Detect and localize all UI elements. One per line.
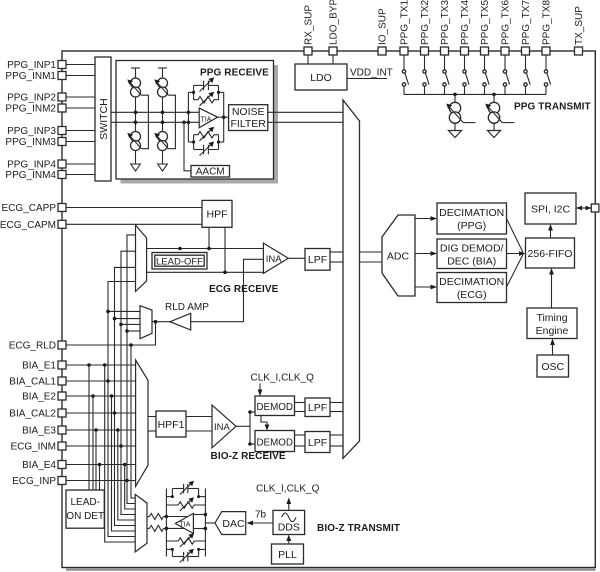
input mux SWITCH <box>95 57 111 181</box>
svg-text:BIO-Z RECEIVE: BIO-Z RECEIVE <box>211 451 286 462</box>
pin BIA_E1 <box>22 361 136 372</box>
oscillator OSC <box>537 355 569 377</box>
feedback upper connectors <box>188 85 223 99</box>
junction leadoff tap <box>178 247 182 251</box>
pin PPG_INM4 <box>5 170 95 181</box>
pin PPG_TX8 <box>542 0 553 55</box>
wire Timing Engine to FIFO <box>549 268 554 308</box>
junction TIA-TX in lower <box>165 527 169 531</box>
svg-text:PPG_INM3: PPG_INM3 <box>5 137 56 148</box>
PPG RECEIVE block frame <box>116 61 274 180</box>
svg-text:PPG TRANSMIT: PPG TRANSMIT <box>514 102 591 113</box>
svg-text:BIA_CAL1: BIA_CAL1 <box>9 377 56 388</box>
current source IRX2 (bottom) <box>154 132 168 164</box>
switch SW_TX3 <box>443 55 449 94</box>
wire clock to DEMOD <box>258 384 263 397</box>
wire TIA-TX right pair <box>193 513 207 531</box>
svg-text:(ECG): (ECG) <box>457 289 487 301</box>
svg-text:PPG_INM1: PPG_INM1 <box>5 71 56 82</box>
svg-text:NOISE: NOISE <box>232 106 265 118</box>
wire riser net1 (BIA_E1 to TX mux) <box>103 363 136 542</box>
wire DDS to DAC (7b) <box>247 510 274 526</box>
wire LPF to bus upper <box>330 251 343 253</box>
op-amp TIA (PPG) <box>199 108 217 128</box>
svg-text:DEMOD: DEMOD <box>256 402 292 413</box>
ground GND_IRX2 <box>158 164 168 171</box>
svg-text:TIA: TIA <box>201 117 212 124</box>
feedback lower connectors <box>188 135 223 150</box>
wire TIA-TX fb right post <box>204 489 206 557</box>
wire RLD to INA input <box>244 259 264 321</box>
switch SW_TX2 <box>423 55 429 94</box>
resistor RF2 (variable) <box>194 127 219 141</box>
pin ECG_INP <box>12 476 136 487</box>
wire SPI bus to pin <box>576 206 592 210</box>
svg-text:PPG_INP1: PPG_INP1 <box>7 60 56 71</box>
wire DIGDEMOD to FIFO <box>507 253 524 255</box>
dds DDS <box>273 510 305 534</box>
svg-text:HPF: HPF <box>207 209 228 221</box>
wire HPF drop M <box>224 227 226 272</box>
current source IRX1 (bottom) <box>127 132 141 164</box>
svg-text:DDS: DDS <box>278 522 300 534</box>
svg-text:LDO: LDO <box>310 72 332 84</box>
ground GND_ITX1 <box>449 131 462 138</box>
filter HPF <box>202 200 232 227</box>
wire TIA fb right post <box>223 92 225 142</box>
mux ECG input <box>136 225 147 291</box>
svg-text:PPG_INP3: PPG_INP3 <box>7 126 56 137</box>
interface SPI, I2C <box>525 193 576 224</box>
svg-text:BIA_CAL2: BIA_CAL2 <box>9 409 56 420</box>
fifo 256-FIFO <box>526 238 575 268</box>
pin PPG_TX7 <box>521 0 532 55</box>
svg-text:CLK_I,CLK_Q: CLK_I,CLK_Q <box>256 484 320 495</box>
svg-text:HPF1: HPF1 <box>158 419 185 431</box>
svg-text:LPF: LPF <box>308 402 327 414</box>
pin BIA_CAL1 <box>9 377 135 388</box>
pin PPG_TX2 <box>420 0 431 55</box>
svg-text:DAC: DAC <box>222 518 245 530</box>
current source IRX2 (top) <box>154 78 175 149</box>
svg-text:PLL: PLL <box>278 549 297 561</box>
wire riser net3 (BIA_E2 to TX mux) <box>110 394 136 531</box>
wire HPF drop P <box>208 227 210 248</box>
filter NOISE FILTER <box>229 105 268 131</box>
pin BIA_E4 <box>22 460 136 471</box>
pin PPG_INP4 <box>7 160 95 171</box>
svg-text:INA: INA <box>214 422 231 433</box>
junction col2 upper <box>161 111 165 115</box>
pin PPG_INP3 <box>7 126 95 137</box>
svg-text:CLK_I,CLK_Q: CLK_I,CLK_Q <box>251 373 315 384</box>
wire RLD mux out <box>152 321 170 323</box>
wire AACM tap <box>182 121 191 171</box>
filter LPF (ECG) <box>305 249 330 271</box>
svg-text:RLD AMP: RLD AMP <box>165 302 209 313</box>
switch SW_TX7 <box>524 55 530 94</box>
svg-text:Engine: Engine <box>536 325 569 337</box>
pin PPG_TX6 <box>501 0 512 55</box>
switch SW_TX6 <box>503 55 509 94</box>
wire TIA-TX fb left post <box>165 489 167 557</box>
current source ITX2 <box>485 94 514 130</box>
pin PPG_TX5 <box>480 0 491 55</box>
chip boundary shadow <box>66 568 596 570</box>
ground GND_IRX1 <box>131 164 141 171</box>
PPG RECEIVE block shadow <box>121 65 279 184</box>
switch SW_TX1 <box>402 55 408 94</box>
wire column1 <box>135 97 137 132</box>
svg-text:7b: 7b <box>255 510 267 521</box>
junction HPF-P <box>207 247 211 251</box>
svg-text:BIA_E2: BIA_E2 <box>22 392 56 403</box>
wire INA out to demods <box>236 410 255 446</box>
wire LPF1 to bus pair <box>330 403 343 412</box>
block LEAD-ON DET <box>66 490 104 528</box>
svg-text:BIA_E4: BIA_E4 <box>22 460 56 471</box>
svg-text:PPG_TX8: PPG_TX8 <box>542 0 553 45</box>
wire ECG chain lower <box>147 271 264 273</box>
svg-text:DEC (BIA): DEC (BIA) <box>447 256 496 268</box>
regulator LDO <box>295 64 347 90</box>
svg-text:LEAD-: LEAD- <box>70 497 99 508</box>
wire bus to ADC upper <box>360 251 383 253</box>
svg-text:ECG_CAPM: ECG_CAPM <box>0 220 56 231</box>
wire riser net8 (ECG_INP, ECG mux, RLD mux, TX mux) <box>125 235 135 504</box>
svg-text:LEAD-OFF: LEAD-OFF <box>156 256 203 267</box>
pin TX_SUP <box>574 6 585 55</box>
svg-text:PPG_INM2: PPG_INM2 <box>5 104 56 115</box>
svg-text:Timing: Timing <box>536 312 567 324</box>
pin PPG_TX4 <box>460 0 471 55</box>
svg-text:OSC: OSC <box>541 361 564 373</box>
wire ECG chain upper <box>147 248 264 250</box>
svg-text:TX_SUP: TX_SUP <box>574 6 585 45</box>
block LEAD-OFF <box>152 253 207 270</box>
wire DDS to CLK <box>286 498 291 511</box>
wire DECIM(ECG) to FIFO <box>507 255 524 288</box>
junction TIA-TX in upper <box>165 515 169 519</box>
pin PPG_INP2 <box>7 93 95 104</box>
wire riser net5 (BIA_E3 to TX mux) <box>116 428 135 520</box>
wire TIA to DAC <box>205 522 215 524</box>
pin BIA_E3 <box>22 426 136 437</box>
wire ADC to DIG DEMOD <box>415 251 437 256</box>
arrowhead into FIFO <box>519 251 526 256</box>
mux BIO-Z transmit <box>135 494 147 552</box>
net VDD_INT <box>348 68 393 79</box>
wire DEMOD2 to LPF2 pair <box>295 435 306 446</box>
wire riser E2 to LEAD-ON DET <box>91 394 95 490</box>
wire TIA fb left post <box>187 92 189 142</box>
svg-text:PPG_INM4: PPG_INM4 <box>5 170 56 181</box>
pin PPG_TX1 <box>400 0 411 55</box>
filter LPF (BIO-Z Q) <box>305 432 330 453</box>
svg-text:IO_SUP: IO_SUP <box>378 8 389 45</box>
switch SW_TX4 <box>463 55 469 94</box>
switch SW_TX5 <box>483 55 489 94</box>
svg-text:INA: INA <box>266 254 283 265</box>
svg-text:BIA_E1: BIA_E1 <box>22 361 56 372</box>
junction rail-Isrc1 <box>453 93 457 97</box>
junction TIA fb left upper <box>187 111 191 115</box>
svg-text:PPG_TX5: PPG_TX5 <box>480 0 491 45</box>
resistor RF1 (variable) <box>194 92 219 106</box>
pin BIA_E2 <box>22 392 136 403</box>
wire riser net2 (BIA_CAL1, ECG mux, RLD mux, TX mux) <box>106 282 135 537</box>
wire TIA input lower <box>111 121 199 123</box>
svg-text:RX_SUP: RX_SUP <box>304 5 315 45</box>
demodulator DEMOD (Q) <box>255 431 295 452</box>
op-amp INA (BIO-Z) <box>212 405 236 448</box>
svg-text:ADC: ADC <box>387 251 410 263</box>
svg-text:PPG_TX6: PPG_TX6 <box>501 0 512 45</box>
supply bar column1 <box>131 68 140 78</box>
junction RLD node <box>154 320 158 324</box>
block DECIMATION (ECG) <box>437 273 507 303</box>
supply bar column2 <box>158 68 167 78</box>
wire column2 <box>162 97 164 132</box>
wire riser E4 to LEAD-ON DET <box>98 463 102 490</box>
block AACM <box>191 166 230 178</box>
junction col1 upper <box>134 111 138 115</box>
wire TX common rail <box>404 93 546 95</box>
svg-text:FILTER: FILTER <box>230 118 266 130</box>
pll PLL <box>272 544 304 564</box>
svg-text:BIA_E3: BIA_E3 <box>22 426 56 437</box>
pin PPG_INM3 <box>5 137 95 148</box>
svg-text:DEMOD: DEMOD <box>256 437 292 448</box>
pin RX_SUP <box>304 5 315 55</box>
analog bus mux (tall) <box>343 100 360 458</box>
demodulator DEMOD (I) <box>255 396 295 416</box>
pin PPG_INP1 <box>7 60 95 71</box>
capacitor C_TXF2 (variable) <box>172 549 198 563</box>
wire DEMOD1 to DEMOD2 <box>261 416 269 431</box>
filter HPF1 <box>156 411 186 437</box>
block DIG DEMOD/DEC (BIA) <box>437 239 507 269</box>
wire TIA input upper <box>111 111 199 113</box>
wire riser net7 (BIA_E4 to TX mux) <box>123 463 136 509</box>
wire LDO_BYP to LDO <box>332 55 334 64</box>
capacitor CF1 (variable) <box>194 77 219 91</box>
op-amp TIA (BIO-Z TX) <box>175 513 193 533</box>
pin BIA_CAL2 <box>9 409 135 420</box>
wire ADC to DECIMATION(PPG) <box>415 216 437 221</box>
svg-text:BIO-Z TRANSMIT: BIO-Z TRANSMIT <box>317 523 400 534</box>
svg-text:DECIMATION: DECIMATION <box>439 276 504 288</box>
wire riser E1 to LEAD-ON DET <box>87 363 91 490</box>
ground GND_ITX2 <box>488 131 501 138</box>
current source ITX1 <box>446 94 475 130</box>
wire TIA to NOISE FILTER <box>218 116 229 118</box>
svg-text:LPF: LPF <box>308 437 327 449</box>
svg-text:ECG_INM: ECG_INM <box>10 442 56 453</box>
junction col1 lower <box>134 121 138 125</box>
wire FIFO to SPI <box>548 224 553 238</box>
pin SDA/SCL (right edge) <box>591 204 599 212</box>
wire riser net9 (RLD to TX mux) <box>129 343 135 498</box>
mux BIO-Z input <box>136 360 148 486</box>
wire DECIM(PPG) to FIFO <box>507 219 524 253</box>
svg-text:PPG_TX1: PPG_TX1 <box>400 0 411 45</box>
pin ECG_CAPP <box>2 203 202 214</box>
svg-text:TIA: TIA <box>180 522 191 529</box>
svg-text:PPG RECEIVE: PPG RECEIVE <box>200 68 269 79</box>
wire NF out lower <box>268 121 343 123</box>
current source IRX1 (top) <box>127 78 148 149</box>
svg-text:(PPG): (PPG) <box>457 220 486 232</box>
wire LPF2 to bus pair <box>330 435 343 446</box>
wire HPF1 to INA lower <box>186 430 212 432</box>
adc ADC <box>382 215 415 296</box>
svg-text:ECG_INP: ECG_INP <box>12 476 56 487</box>
wire riser E3 to LEAD-ON DET <box>94 428 98 490</box>
junction col2 lower <box>161 121 165 125</box>
wire mux to HPF1 lower <box>148 430 156 432</box>
switch SW_TX8 <box>544 55 550 94</box>
wire PLL to DDS <box>286 535 291 545</box>
wire DEMOD1 to LPF1 pair <box>295 403 306 412</box>
pin ECG_RLD <box>9 322 156 352</box>
pin PPG_INM1 <box>5 71 95 82</box>
svg-text:PPG_TX7: PPG_TX7 <box>521 0 532 45</box>
svg-text:SWITCH: SWITCH <box>98 98 110 139</box>
svg-text:AACM: AACM <box>196 167 225 178</box>
wire RLD AMP feedback <box>191 321 244 323</box>
pin IO_SUP <box>378 8 389 55</box>
svg-text:PPG_TX4: PPG_TX4 <box>460 0 471 45</box>
resistor R_TX2 <box>147 525 190 531</box>
svg-text:LPF: LPF <box>308 254 327 266</box>
wire ADC to DECIMATION(ECG) <box>415 285 437 290</box>
feedback TX lower connectors <box>166 548 205 557</box>
svg-text:ECG_CAPP: ECG_CAPP <box>2 203 57 214</box>
resistor R_TX1 <box>147 514 190 520</box>
feedback TX upper connectors <box>166 489 205 499</box>
op-amp INA (ECG) <box>263 243 288 273</box>
pin ECG_INM <box>10 442 135 453</box>
pin ECG_CAPM <box>0 220 202 231</box>
block Timing Engine <box>527 308 577 339</box>
svg-text:DIG DEMOD/: DIG DEMOD/ <box>440 243 504 255</box>
wire LPF to bus lower <box>330 261 343 263</box>
wire bus to ADC lower <box>360 261 383 263</box>
svg-text:PPG_INP2: PPG_INP2 <box>7 93 56 104</box>
capacitor CF2 (variable) <box>194 142 219 156</box>
junction TIA fb left lower <box>187 121 191 125</box>
filter LPF (BIO-Z I) <box>305 398 330 417</box>
wire NF out upper <box>268 111 343 113</box>
svg-text:PPG_TX3: PPG_TX3 <box>440 0 451 45</box>
junction HPF-M <box>223 271 227 275</box>
capacitor C_TXF1 (variable) <box>172 481 198 495</box>
mux RLD input <box>108 306 152 339</box>
svg-text:ECG RECEIVE: ECG RECEIVE <box>209 284 279 295</box>
svg-text:LDO_BYP: LDO_BYP <box>329 0 340 45</box>
pin PPG_TX3 <box>440 0 451 55</box>
dac DAC <box>215 512 246 535</box>
svg-text:DECIMATION: DECIMATION <box>439 207 504 219</box>
op-amp RLD AMP <box>165 302 209 330</box>
wire HPF1 to INA upper <box>186 416 212 418</box>
junction TIA out <box>222 115 226 119</box>
resistor R_TXF1 (variable) <box>166 497 205 511</box>
wire INA to LPF <box>288 257 305 259</box>
pin LDO_BYP <box>329 0 340 55</box>
svg-text:ECG_RLD: ECG_RLD <box>9 341 56 352</box>
svg-text:256-FIFO: 256-FIFO <box>528 248 573 260</box>
junction rail-Isrc2 <box>492 93 496 97</box>
svg-text:PPG_TX2: PPG_TX2 <box>420 0 431 45</box>
svg-text:PPG_INP4: PPG_INP4 <box>7 160 56 171</box>
wire OSC to Timing Engine <box>550 339 555 356</box>
pin PPG_INM2 <box>5 104 95 115</box>
wire mux to HPF1 upper <box>148 416 156 418</box>
block DECIMATION (PPG) <box>437 203 507 234</box>
svg-text:SPI, I2C: SPI, I2C <box>531 204 571 216</box>
wire RX_SUP to LDO <box>307 55 309 64</box>
wire riser net4 (BIA_CAL2, ECG mux, RLD mux, TX mux) <box>113 267 136 525</box>
svg-text:ON DET: ON DET <box>66 511 104 522</box>
wire riser net6 (ECG_INM, ECG mux, RLD mux, TX mux) <box>119 251 135 514</box>
resistor R_TXF2 (variable) <box>166 533 205 547</box>
svg-text:VDD_INT: VDD_INT <box>350 68 393 79</box>
